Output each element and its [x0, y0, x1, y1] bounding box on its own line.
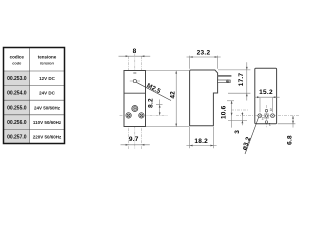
table gray code cells: [4, 71, 29, 143]
front view big circle: [132, 106, 138, 112]
port 2: [264, 114, 268, 118]
svg-text:00.255.0: 00.255.0: [7, 105, 27, 111]
bottom view centerline horizontal: [236, 115, 300, 117]
svg-text:6.8: 6.8: [287, 135, 294, 145]
svg-text:tensione: tensione: [38, 54, 57, 59]
port 1: [265, 121, 268, 124]
svg-text:24V DC: 24V DC: [39, 91, 56, 96]
front view divider line: [124, 92, 146, 94]
dimension 18.2: [189, 127, 191, 148]
dimension 8.2: [159, 100, 161, 116]
svg-text:18.2: 18.2: [194, 138, 208, 145]
front view body: [124, 71, 146, 127]
side view pin 1: [218, 75, 232, 77]
table column divider: [29, 48, 31, 144]
dimension 42 extension lines: [146, 70, 189, 72]
svg-text:42: 42: [169, 91, 176, 99]
table outer frame: [4, 48, 65, 144]
svg-text:220V 50/60Hz: 220V 50/60Hz: [33, 135, 62, 140]
side view pin 2: [218, 80, 231, 83]
reference line: [228, 120, 247, 122]
bottom view right mounting hole: [271, 114, 275, 118]
svg-text:00.254.0: 00.254.0: [7, 91, 27, 97]
svg-text:12V DC: 12V DC: [39, 76, 56, 81]
port 3: [265, 109, 268, 112]
svg-text:24V 50/60Hz: 24V 50/60Hz: [34, 105, 61, 110]
svg-text:8: 8: [133, 48, 137, 55]
bottom view centerline vertical: [266, 104, 268, 128]
svg-text:8.2: 8.2: [148, 98, 155, 108]
svg-text:00.253.0: 00.253.0: [7, 76, 27, 82]
table row lines: [4, 71, 64, 129]
M2.5 hole: [130, 80, 140, 82]
svg-text:00.256.0: 00.256.0: [7, 120, 27, 126]
M2.5 leader: [136, 82, 171, 100]
svg-text:tension: tension: [40, 60, 54, 65]
dimension 42: [175, 71, 177, 127]
dimension 6.8: [278, 123, 296, 125]
svg-text:00.257.0: 00.257.0: [7, 135, 27, 141]
svg-text:3: 3: [234, 130, 241, 134]
svg-text:15.2: 15.2: [259, 89, 273, 96]
svg-text:10.6: 10.6: [220, 105, 227, 119]
svg-text:17.7: 17.7: [238, 73, 245, 87]
svg-text:1: 1: [269, 123, 271, 127]
bottom view left mounting hole: [258, 114, 262, 118]
dimension 8: [119, 55, 151, 57]
front view left port: [126, 113, 131, 118]
svg-text:110V 50/60Hz: 110V 50/60Hz: [33, 120, 62, 125]
bottom view body: [255, 68, 277, 124]
front view right port: [139, 113, 144, 118]
svg-text:9.7: 9.7: [129, 136, 139, 143]
port 3 centerline dashes: [231, 109, 248, 111]
front view top slot: [133, 72, 136, 73]
side view body: [190, 70, 218, 126]
side view earth screw: [226, 80, 229, 83]
dimension 3: [241, 112, 243, 125]
dimension 10.6: [227, 100, 234, 102]
bottom view centerline inside box: [255, 115, 277, 117]
diameter 3.2 leader: [245, 117, 259, 154]
dimension 9.7: [121, 144, 150, 146]
svg-text:2: 2: [262, 117, 264, 121]
svg-text:code: code: [12, 60, 22, 65]
dimension 23.2: [189, 56, 191, 69]
dimension 17.7: [218, 69, 250, 71]
svg-text:3: 3: [270, 108, 272, 112]
svg-text:23.2: 23.2: [197, 50, 211, 57]
front view ports horizontal centerline: [120, 114, 169, 116]
front view vertical centerlines: [129, 54, 142, 150]
svg-text:codice: codice: [10, 54, 25, 59]
